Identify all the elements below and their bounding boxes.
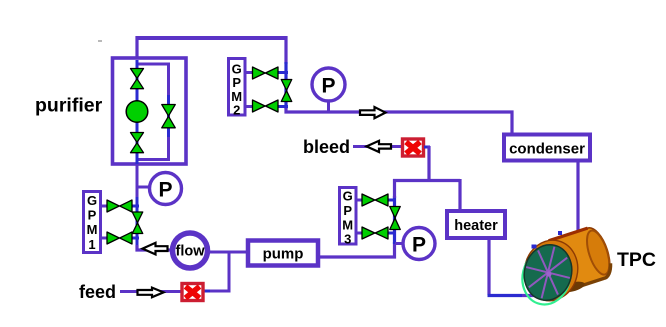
wire GPM2 bridge main blue [284, 62, 287, 109]
wire feed tee [205, 251, 229, 291]
GPM1 stub wires [102, 205, 109, 208]
wire GPM2 bridge drop purple upper [284, 36, 287, 64]
svg-text:feed: feed [79, 282, 116, 302]
svg-text:heater: heater [454, 218, 498, 234]
purifier bed circle [126, 101, 148, 123]
spokes [520, 241, 576, 303]
svg-text:M: M [87, 222, 98, 237]
body cylinder [549, 224, 616, 291]
wire GPM1 bridge main blue [136, 197, 139, 247]
purifier internal line blue [136, 60, 139, 165]
svg-text:P: P [158, 179, 172, 202]
wire bridge top horizontal [393, 179, 460, 182]
condenser box [504, 135, 590, 161]
svg-text:purifier: purifier [35, 95, 103, 117]
meter GPM1 box [84, 192, 101, 253]
svg-text:P: P [321, 75, 335, 98]
GPM2 top valve [253, 67, 279, 79]
flow meter arrow (left) [143, 243, 168, 255]
svg-text:P: P [412, 234, 426, 257]
GPM3 top valve [362, 194, 388, 206]
svg-text:P: P [232, 75, 241, 90]
wire purifier riser top [135, 36, 138, 58]
GPM1 top valve [107, 200, 132, 212]
flow meter circle [173, 233, 208, 268]
gauge P3 [403, 228, 435, 260]
purifier top valve [131, 69, 144, 89]
gauge P1 [312, 68, 345, 101]
svg-text:TPC: TPC [617, 249, 656, 271]
GPM2 bottom valve [253, 100, 279, 112]
stray speck [98, 40, 102, 42]
GPM1 bottom valve [107, 232, 132, 244]
meter GPM2 box [229, 59, 246, 116]
GPM2 vertical valve [281, 80, 292, 102]
wire flow to pump [208, 251, 248, 254]
wire drop to heater [458, 179, 461, 211]
spoke hub knot [546, 271, 551, 276]
gauge P2 stub [138, 186, 150, 189]
wire heater to TPC [487, 238, 490, 295]
wire GPM2 bridge bottom corner to condenser riser [286, 107, 512, 134]
GPM3 stub wires [357, 199, 364, 202]
purifier bottom valve [131, 133, 144, 153]
wire bleed drop [427, 146, 430, 181]
gauge P1 stem [327, 99, 330, 112]
body top dark band [549, 228, 588, 241]
svg-text:P: P [88, 208, 97, 223]
svg-text:G: G [87, 193, 97, 208]
feed arrow [138, 288, 164, 298]
wire bleed line [353, 145, 402, 148]
purifier bypass valve [162, 105, 176, 128]
svg-text:1: 1 [88, 237, 95, 252]
body bottom shadow [573, 263, 615, 287]
svg-text:3: 3 [344, 232, 351, 247]
bypass valve blue line [167, 95, 170, 137]
svg-text:2: 2 [233, 103, 240, 118]
front flange ring [518, 234, 584, 306]
wire purifier outlet purple [136, 164, 139, 199]
svg-text:pump: pump [263, 246, 304, 263]
wire top horizontal from purifier to GPM2 bridge [137, 36, 286, 40]
TPC vessel 3D [517, 224, 616, 309]
svg-text:condenser: condenser [509, 141, 585, 158]
svg-text:P: P [343, 203, 352, 218]
gauge P3 stub [395, 242, 404, 245]
purifier bypass loop [138, 64, 169, 160]
purifier outer vessel box [113, 58, 187, 164]
front disc green rim [517, 243, 576, 309]
meter GPM3 box [340, 188, 357, 245]
blue pixel dots [532, 245, 537, 249]
wire bleed X stub blue [424, 146, 430, 149]
svg-text:flow: flow [176, 244, 206, 260]
svg-text:M: M [342, 218, 353, 233]
flow arrow on condenser line [360, 107, 386, 118]
gauge P2 [150, 173, 182, 205]
GPM3 bottom valve [362, 227, 388, 239]
feed closed valve X [182, 284, 203, 301]
front disc [518, 240, 577, 306]
bleed closed valve X [403, 139, 424, 156]
body end cap ring [582, 228, 613, 277]
wire feed X stub blue [203, 290, 210, 293]
GPM3 vertical valve [390, 207, 401, 230]
body bottom dark blob [558, 279, 585, 294]
wire condenser to TPC [576, 160, 579, 232]
heater box [447, 211, 505, 238]
wire pump to GPM3 bridge [318, 242, 395, 257]
svg-text:bleed: bleed [303, 137, 350, 157]
wire GPM3 bridge top purple [393, 179, 396, 198]
GPM1 vertical valve [132, 212, 143, 234]
wire GPM3 bridge main blue [393, 196, 396, 244]
GPM2 stub wires [246, 71, 254, 74]
wire feed line [120, 290, 182, 293]
pump box [248, 241, 318, 266]
wire corner to flow meter [137, 245, 172, 250]
bleed arrow (left) [367, 141, 392, 152]
svg-text:G: G [343, 189, 353, 204]
